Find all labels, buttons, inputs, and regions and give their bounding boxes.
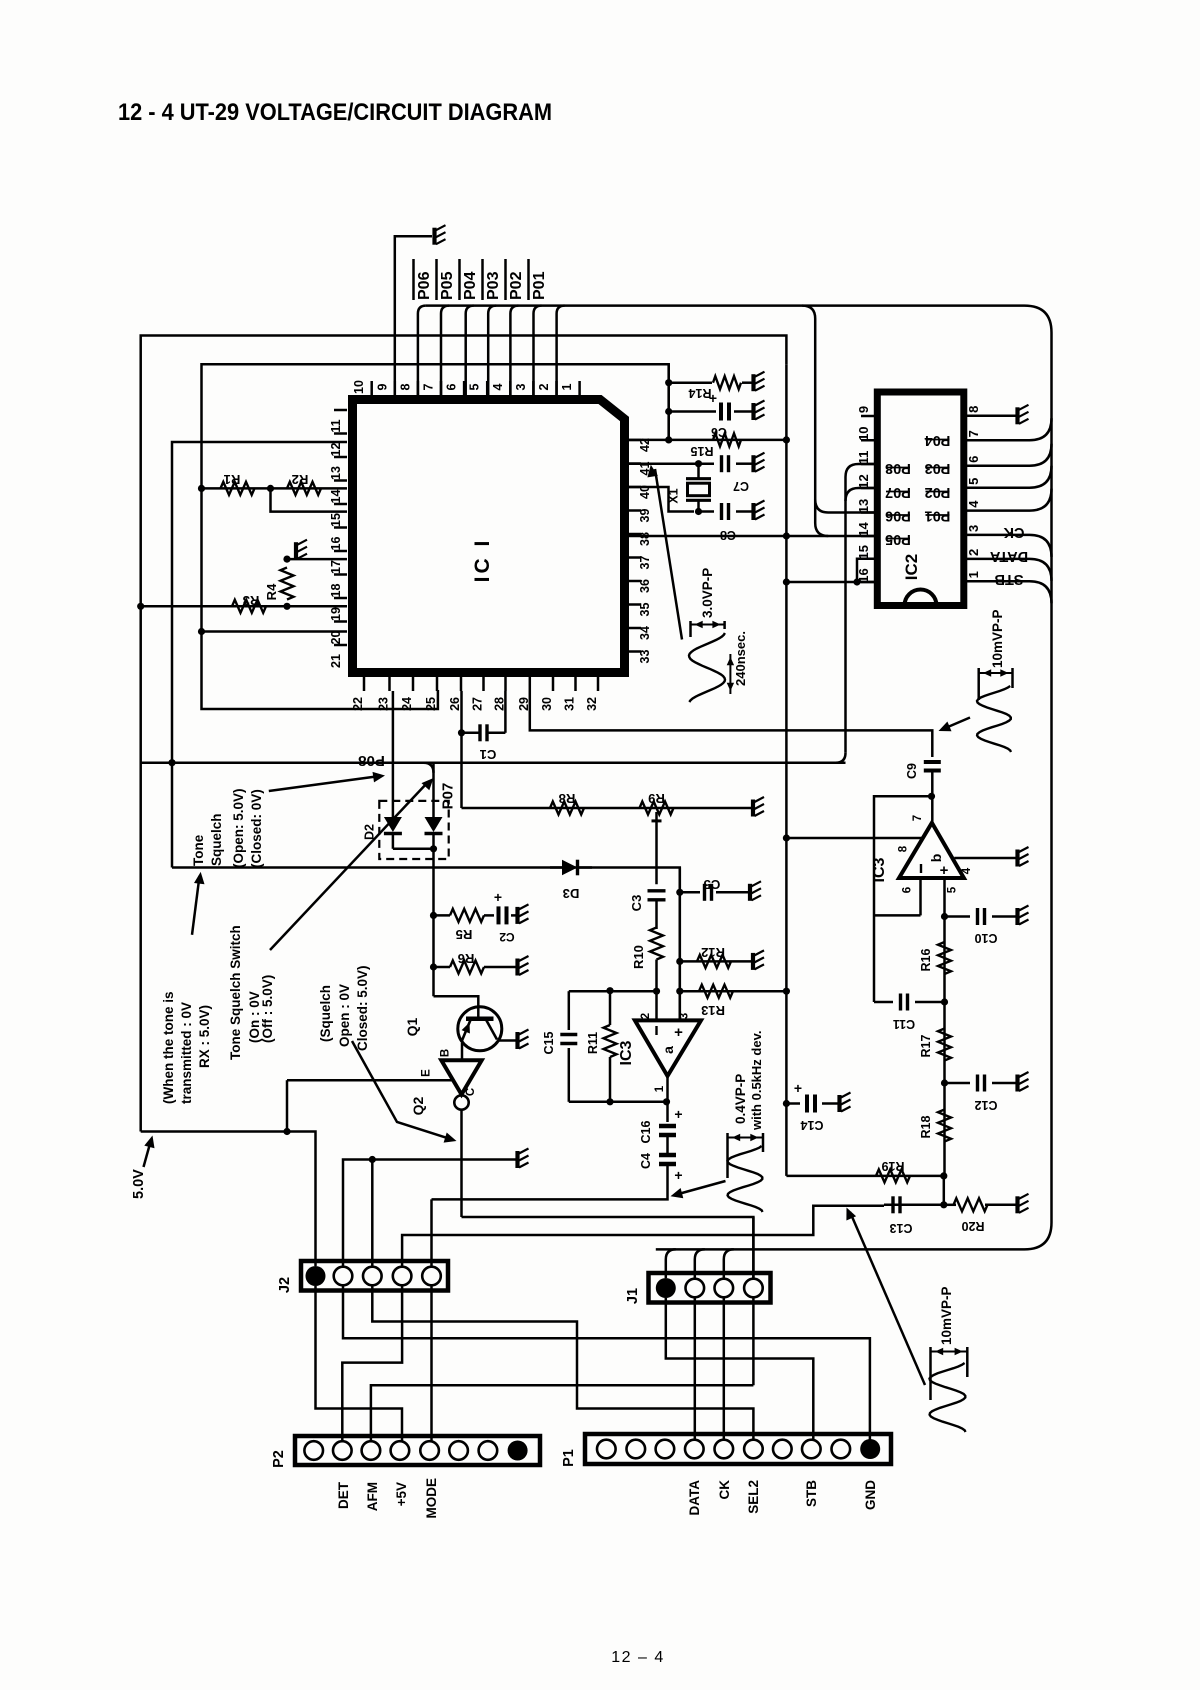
junction dot pin21 line on inner rect bbox=[198, 628, 205, 635]
svg-text:R15: R15 bbox=[690, 444, 713, 458]
wire C3 chain: tick bar and vertical bbox=[652, 819, 662, 822]
waveform 0.4VP-P bracket bbox=[726, 1133, 729, 1178]
wire bundle curve up to IC2 pin11 vertical bbox=[836, 753, 846, 763]
wire X1 bottom to C8 bbox=[699, 510, 715, 513]
svg-text:R12: R12 bbox=[701, 945, 725, 960]
wire feedback left branch with C15 bbox=[568, 991, 571, 1030]
svg-text:STB: STB bbox=[995, 571, 1024, 587]
svg-text:+: + bbox=[940, 862, 949, 879]
svg-text:+: + bbox=[494, 889, 502, 905]
waveform 0.4VP-P sine bbox=[728, 1146, 763, 1212]
ground above R4 bbox=[296, 540, 307, 560]
junction dot J2 pin3 on ground line bbox=[369, 1156, 376, 1163]
wire J2 pin1 to P2 pin4 jog bbox=[316, 1286, 403, 1441]
svg-text:R17: R17 bbox=[919, 1034, 933, 1057]
waveform 3.0VP-P bracket bbox=[689, 621, 692, 637]
svg-text:22: 22 bbox=[351, 697, 365, 711]
svg-text:(Closed: 0V): (Closed: 0V) bbox=[249, 789, 264, 868]
wire R6 line bbox=[434, 966, 451, 969]
capacitor C4 electrolytic bbox=[659, 1153, 676, 1158]
capacitor C10 bbox=[976, 908, 979, 925]
capacitor C1 bbox=[478, 724, 481, 741]
junction dot IC3a output/feedback bbox=[663, 1098, 670, 1105]
junction dot R1/R2 bbox=[267, 485, 274, 492]
svg-text:RX : 5.0V): RX : 5.0V) bbox=[197, 1005, 212, 1068]
svg-text:Q2: Q2 bbox=[410, 1096, 426, 1115]
wire IC1 pin21 line y=631.5 bbox=[202, 630, 348, 633]
waveform 10mVP-P sine (lower) bbox=[930, 1363, 966, 1432]
svg-text:23: 23 bbox=[377, 697, 391, 711]
junction dot pin38 line on V1 bbox=[783, 532, 790, 539]
svg-text:C15: C15 bbox=[542, 1031, 556, 1054]
wire R10 to pin2 junction bbox=[655, 960, 658, 1021]
wire Q2 E branch vertical bbox=[286, 1080, 289, 1131]
svg-text:C7: C7 bbox=[733, 479, 749, 493]
wire J1 pin2 to P1 pin4 (DATA) bbox=[694, 1298, 697, 1444]
wire Q2 collector down to J-area bbox=[460, 1110, 463, 1217]
svg-text:b: b bbox=[928, 854, 944, 863]
svg-text:5: 5 bbox=[947, 886, 959, 893]
wire Q1 collector to Q2 base bbox=[461, 1043, 464, 1060]
svg-text:R16: R16 bbox=[919, 948, 933, 971]
svg-text:R3: R3 bbox=[243, 593, 260, 608]
junction dot R14 line bbox=[665, 379, 672, 386]
svg-text:27: 27 bbox=[471, 697, 485, 711]
waveform 10mVP-P bracket (lower) bbox=[929, 1347, 932, 1400]
junction dot pin16 line on V1 bbox=[783, 578, 790, 585]
junction dot R11 bottom bbox=[606, 1098, 613, 1105]
svg-text:P05: P05 bbox=[439, 271, 456, 300]
wire ground line y=1159.5 over J2 bbox=[343, 1160, 516, 1267]
svg-text:6: 6 bbox=[902, 887, 914, 893]
wire pin5 chain down (R16,R17,R18) bbox=[943, 878, 946, 1176]
ground after R20 bbox=[1018, 1194, 1029, 1214]
arrow tone-squelch-switch to P07 bbox=[270, 782, 428, 950]
svg-text:C5: C5 bbox=[704, 877, 721, 892]
ground after C2 bbox=[518, 904, 529, 924]
svg-text:with 0.5kHz dev.: with 0.5kHz dev. bbox=[749, 1031, 764, 1131]
wire feedback top y=991 bbox=[569, 990, 657, 993]
resistor R15 bbox=[713, 433, 741, 446]
wire J1 pin4 entry bbox=[752, 1217, 755, 1278]
wire R11 stubs bbox=[609, 991, 612, 1025]
capacitor C9 bbox=[924, 760, 941, 764]
resistor R2 bbox=[287, 482, 321, 495]
svg-text:R19: R19 bbox=[881, 1159, 904, 1173]
svg-text:10: 10 bbox=[856, 426, 871, 440]
wire IC1 pin26 vertical down through C1 junction to R8 line corner bbox=[460, 691, 463, 808]
capacitor C3 bbox=[648, 889, 666, 892]
resistor R16 bbox=[938, 942, 951, 974]
svg-text:Closed: 5.0V): Closed: 5.0V) bbox=[355, 965, 370, 1051]
svg-text:11: 11 bbox=[329, 419, 343, 432]
svg-text:J1: J1 bbox=[625, 1288, 641, 1304]
junction dot R13 line bbox=[676, 988, 683, 995]
junction dot pin8 line on V1 bbox=[783, 834, 790, 841]
resistor R5 bbox=[450, 909, 484, 922]
svg-text:AFM: AFM bbox=[365, 1482, 380, 1511]
wire V1 right-centre vertical bus x=786 bbox=[785, 364, 788, 1176]
svg-text:14: 14 bbox=[329, 490, 343, 504]
wire IC2 pin15 jog bbox=[857, 559, 875, 582]
junction dot X1 top bbox=[695, 460, 702, 467]
wire J1 pin1 to P1 pin8 (STB) bbox=[666, 1298, 814, 1444]
IC2 left pins 9..16 bbox=[856, 406, 877, 583]
wire J1 pins1-3 cable entry curves bbox=[666, 1249, 734, 1278]
svg-text:GND: GND bbox=[863, 1480, 878, 1510]
svg-text:3.0VP-P: 3.0VP-P bbox=[700, 568, 715, 618]
junction dot R13 on V1 bbox=[783, 988, 790, 995]
svg-text:16: 16 bbox=[329, 537, 343, 551]
wire P08 vertical from IC1 pin23 to D2 left diode bbox=[392, 691, 395, 817]
capacitor C6 electrolytic bbox=[719, 403, 723, 421]
wire R1-R2 line y=488.4 bbox=[202, 487, 348, 490]
svg-text:(When the tone is: (When the tone is bbox=[161, 992, 176, 1105]
svg-text:P08: P08 bbox=[358, 752, 385, 769]
svg-text:+: + bbox=[709, 390, 717, 406]
svg-text:3: 3 bbox=[966, 525, 981, 532]
svg-text:CK: CK bbox=[717, 1480, 732, 1500]
wire R3 line y=606.3 bbox=[141, 605, 347, 608]
crystal X1 bbox=[697, 464, 700, 478]
svg-text:(Off : 5.0V): (Off : 5.0V) bbox=[260, 975, 275, 1043]
resistor R19 bbox=[876, 1169, 910, 1182]
ground at Q1 bbox=[518, 1030, 529, 1050]
svg-text:1: 1 bbox=[560, 383, 574, 390]
connector P1 box bbox=[585, 1434, 891, 1464]
IC1 bottom pins 22..32 ticks and numbers bbox=[351, 677, 599, 711]
junction dot R11 top bbox=[606, 987, 613, 994]
wire IC3b feedback loop bbox=[874, 796, 932, 1002]
svg-text:7: 7 bbox=[912, 815, 924, 821]
svg-text:SEL2: SEL2 bbox=[746, 1480, 761, 1514]
junction dot C5 line bbox=[676, 889, 683, 896]
net labels P06..P01 with overbars bbox=[414, 259, 549, 300]
svg-text:transmitted : 0V: transmitted : 0V bbox=[179, 1002, 194, 1104]
arrow tone-squelch to P08 bbox=[269, 776, 378, 791]
ground after C8 bbox=[754, 501, 765, 521]
wire R14/C6 vertical x=668.7 bbox=[667, 364, 670, 440]
svg-text:P1: P1 bbox=[561, 1449, 577, 1467]
svg-text:32: 32 bbox=[585, 697, 599, 711]
wire R5 line bbox=[434, 914, 451, 917]
wire IC2 pins 3..1 (CK DATA STB) curves into cable bbox=[980, 535, 1052, 603]
svg-text:R9: R9 bbox=[648, 791, 665, 806]
capacitor C8 bbox=[720, 503, 723, 520]
wire 5V rail corner to J2 pin1 bbox=[141, 1132, 316, 1267]
svg-text:9: 9 bbox=[375, 383, 389, 390]
resistor R10 bbox=[650, 928, 663, 960]
junction dot C12 line bbox=[941, 1079, 948, 1086]
svg-text:7: 7 bbox=[966, 430, 981, 437]
wire feedback bottom y=1101.8 bbox=[569, 1101, 667, 1104]
junction dot Q2-E branch bbox=[283, 1128, 290, 1135]
wire R14 line bbox=[669, 381, 712, 384]
svg-text:24: 24 bbox=[400, 697, 414, 711]
junction dot X1 bottom bbox=[695, 508, 702, 515]
svg-text:C3: C3 bbox=[629, 895, 644, 912]
svg-text:(Open: 5.0V): (Open: 5.0V) bbox=[231, 788, 246, 868]
capacitor C15 bbox=[560, 1033, 577, 1036]
svg-text:26: 26 bbox=[448, 697, 462, 711]
svg-text:P01: P01 bbox=[531, 271, 548, 300]
ground on J2 pin2/3 line bbox=[518, 1149, 529, 1169]
junction dot pin42/R15 vertical bbox=[665, 436, 672, 443]
wire IC1 pin9 to ground bbox=[395, 236, 432, 395]
wire IC2 pin16 line from V1 bbox=[786, 581, 875, 584]
svg-text:8: 8 bbox=[398, 383, 412, 390]
junction dot x=172 on bundle line bbox=[168, 759, 175, 766]
capacitor C12 bbox=[976, 1075, 979, 1092]
arrow squelch to Q2 collector bbox=[352, 1041, 453, 1140]
svg-text:33: 33 bbox=[638, 650, 652, 664]
resistor R8 bbox=[550, 802, 584, 815]
svg-text:2: 2 bbox=[537, 383, 551, 390]
wire IC1 pin41 line y=463.7 bbox=[629, 462, 714, 465]
ground after C5 bbox=[750, 881, 761, 901]
wire C10 line bbox=[945, 915, 971, 918]
svg-text:P06: P06 bbox=[416, 271, 433, 300]
wire IC1 pin28 vertical to C1 right bbox=[504, 691, 507, 733]
ground at IC3b pin4 bbox=[1018, 847, 1029, 867]
svg-text:14: 14 bbox=[856, 522, 871, 537]
junction dot R6 line bbox=[430, 963, 437, 970]
svg-text:15: 15 bbox=[856, 545, 871, 559]
wire J2 pin4 up to C13 node line bbox=[402, 1206, 884, 1266]
connector J1 box bbox=[649, 1273, 771, 1303]
op-amp IC3 b bbox=[899, 823, 964, 878]
wire C6 line bbox=[669, 410, 716, 413]
svg-text:+: + bbox=[674, 1167, 682, 1183]
svg-text:6: 6 bbox=[966, 456, 981, 463]
wire second top line x=201.5 corner east at y=364 (to R14 vertical corner) bbox=[202, 364, 669, 440]
svg-text:R2: R2 bbox=[292, 472, 309, 487]
wire D2/P07 vertical down through R5,R6 junctions to Q1 base bbox=[432, 763, 435, 817]
wire bus exit curves to IC2 pins 13/14 bbox=[802, 306, 828, 536]
diode D2 right (cathode-down) bbox=[425, 817, 443, 832]
svg-text:Q1: Q1 bbox=[404, 1017, 420, 1036]
IC2 right pins 8..1 bbox=[964, 406, 981, 582]
svg-text:4: 4 bbox=[966, 500, 981, 508]
wire C13/R20 line bbox=[884, 1204, 944, 1207]
capacitor C16 electrolytic bbox=[659, 1124, 676, 1129]
ground after C7 bbox=[754, 453, 765, 473]
svg-text:3: 3 bbox=[514, 383, 528, 390]
wire inner rect x=201.5: top line to IC1 pin13-area, down, bottom to pin25 bbox=[202, 364, 438, 709]
resistor R14 bbox=[713, 376, 741, 389]
resistor R18 bbox=[938, 1110, 951, 1142]
junction dot pin42 line on V1 bbox=[783, 436, 790, 443]
wire bundle curve down into D2 right diode bbox=[424, 763, 434, 773]
resistor R12 bbox=[697, 955, 731, 968]
wire IC1 pin38 line y=536 to IC2 pin14 bbox=[629, 535, 875, 538]
svg-text:R18: R18 bbox=[919, 1115, 933, 1138]
svg-text:10: 10 bbox=[352, 380, 366, 394]
junction dot D2 bottom bbox=[430, 845, 437, 852]
junction dot C10 line bbox=[941, 913, 948, 920]
junction dot on 5V rail (R3 line) bbox=[137, 603, 144, 610]
svg-text:IC3: IC3 bbox=[618, 1040, 635, 1065]
ground after R12 bbox=[753, 950, 764, 970]
svg-text:P02: P02 bbox=[508, 271, 525, 300]
junction dot R1 left on inner rect bbox=[198, 485, 205, 492]
svg-text:R1: R1 bbox=[224, 472, 241, 487]
svg-text:10mVP-P: 10mVP-P bbox=[939, 1286, 954, 1345]
wire IC1 pin29 line east then down to C9 bbox=[530, 691, 933, 757]
wire P08/P07 bundle horizontal y=762.5 bbox=[141, 761, 846, 764]
wire Q2 collector line y=1217 to J1 pin4 bbox=[462, 1217, 754, 1385]
svg-text:31: 31 bbox=[563, 697, 577, 711]
svg-text:B: B bbox=[440, 1049, 452, 1057]
wire J2 pin5 / P2 pin5 straight with C4 line bbox=[430, 1199, 433, 1441]
capacitor C14 electrolytic bbox=[805, 1095, 809, 1113]
op-amp IC3 a bbox=[635, 1020, 701, 1076]
svg-text:P04: P04 bbox=[462, 271, 479, 300]
svg-text:2: 2 bbox=[966, 549, 981, 556]
capacitor C7 bbox=[720, 455, 723, 472]
svg-text:4: 4 bbox=[961, 867, 973, 874]
svg-text:MODE: MODE bbox=[424, 1478, 439, 1519]
connector J1 pins 1-4 bbox=[656, 1278, 763, 1298]
svg-text:11: 11 bbox=[856, 451, 871, 465]
junction dot C14 on V1 bbox=[783, 1100, 790, 1107]
wire P0 bus curves from IC1 pins 8..2 bbox=[418, 306, 565, 395]
diode D2 left (cathode-down) bbox=[384, 817, 402, 832]
wire C14 line from V1 bbox=[786, 1102, 800, 1105]
svg-text:E: E bbox=[421, 1069, 433, 1077]
svg-text:C13: C13 bbox=[889, 1221, 912, 1235]
svg-text:P07: P07 bbox=[440, 783, 457, 810]
svg-text:R5: R5 bbox=[456, 927, 473, 942]
svg-text:12: 12 bbox=[329, 443, 343, 457]
wire Q1 emitter to ground bbox=[499, 1039, 517, 1042]
junction dot C11 line bbox=[941, 998, 948, 1005]
svg-text:D3: D3 bbox=[563, 886, 580, 901]
ground after R6 bbox=[518, 956, 529, 976]
wire IC2 pin8 to ground bbox=[980, 415, 1016, 418]
IC1 right pins 42..33 ticks and numbers bbox=[629, 438, 652, 663]
svg-text:C4: C4 bbox=[639, 1153, 653, 1169]
resistor R11 bbox=[604, 1025, 617, 1057]
resistor R1 bbox=[221, 482, 255, 495]
svg-text:C9: C9 bbox=[905, 763, 919, 779]
diode D3 bbox=[550, 866, 562, 869]
svg-text:30: 30 bbox=[540, 697, 554, 711]
wire 5.0V rail left vertical + top edge to V1 corner bbox=[141, 336, 787, 1132]
svg-text:STB: STB bbox=[804, 1480, 819, 1507]
transistor Q1 bbox=[458, 1007, 502, 1051]
svg-text:17: 17 bbox=[329, 560, 343, 574]
wire P0 bus top horizontal to top-right corner into cable vertical bbox=[426, 306, 1052, 1250]
diode pair D2 dashed box bbox=[379, 801, 448, 859]
connector J2 box bbox=[301, 1261, 448, 1291]
svg-text:C14: C14 bbox=[800, 1118, 823, 1132]
wire R13 line to V1 bbox=[680, 990, 787, 993]
op-amp IC1 main microcomputer box with chamfer and label bbox=[353, 400, 625, 673]
wire R4 top line to IC1 pin18 bbox=[287, 558, 347, 561]
wire IC1 pin42 line y=439.9 to V1 bbox=[629, 439, 787, 442]
svg-text:IC I: IC I bbox=[471, 538, 494, 583]
svg-text:1: 1 bbox=[966, 571, 981, 578]
svg-text:R10: R10 bbox=[631, 945, 646, 969]
svg-text:IC2: IC2 bbox=[902, 554, 921, 580]
svg-text:10mVP-P: 10mVP-P bbox=[990, 609, 1005, 668]
wire J2 pin2 down to P1 pin10 (GND) bbox=[343, 1286, 870, 1444]
ground after C14 bbox=[840, 1093, 851, 1113]
svg-text:6: 6 bbox=[445, 383, 459, 390]
svg-text:37: 37 bbox=[638, 556, 652, 570]
junction dot R5 line bbox=[430, 912, 437, 919]
svg-text:13: 13 bbox=[856, 499, 871, 513]
connector P1 pins 1-10 bbox=[597, 1439, 880, 1459]
svg-text:(Squelch: (Squelch bbox=[318, 985, 333, 1042]
svg-text:C12: C12 bbox=[974, 1098, 997, 1112]
wire IC1 pin40 jog to X1 bottom bbox=[629, 487, 694, 512]
resistor R3 bbox=[232, 600, 266, 613]
op-amp IC2 expander box with notch and label bbox=[877, 392, 964, 606]
connector P2 pins 1-8 bbox=[304, 1441, 527, 1461]
wire IC3b pin4 to ground bbox=[954, 857, 1016, 860]
arrow 10mVP-P to C13 line bbox=[850, 1212, 925, 1385]
connector P2 box bbox=[295, 1436, 540, 1465]
capacitor C11 bbox=[899, 994, 902, 1011]
svg-text:5.0V: 5.0V bbox=[131, 1169, 147, 1199]
junction dot pin15 jog bbox=[853, 578, 860, 585]
wire C12 line bbox=[945, 1082, 971, 1085]
svg-text:8: 8 bbox=[898, 845, 910, 852]
svg-text:C10: C10 bbox=[974, 931, 997, 945]
resistor R4 bbox=[281, 568, 294, 600]
svg-text:1: 1 bbox=[654, 1085, 666, 1092]
wire J2 pin3 down jog to P1 pin6 (SEL2) bbox=[372, 1286, 753, 1444]
svg-text:Squelch: Squelch bbox=[209, 813, 224, 866]
svg-text:19: 19 bbox=[329, 607, 343, 621]
wire P2 pin3 (AFM) east to J1 pin4 bbox=[371, 1385, 754, 1441]
arrow 10mVP-P to C9 corner bbox=[944, 718, 970, 729]
svg-text:C11: C11 bbox=[893, 1017, 915, 1031]
wire C4 down corner west to J2 pin5 line bbox=[432, 1164, 668, 1199]
svg-text:38: 38 bbox=[638, 532, 652, 546]
wire IC2 pin11 bundle vertical bbox=[846, 464, 876, 753]
resistor R17 bbox=[938, 1029, 951, 1061]
waveform 10mVP-P sine (upper) bbox=[977, 686, 1011, 752]
svg-text:36: 36 bbox=[638, 579, 652, 593]
svg-text:CK: CK bbox=[1003, 524, 1024, 540]
svg-text:P2: P2 bbox=[271, 1450, 287, 1468]
arrow 0.4VP-P to C4 corner bbox=[677, 1181, 726, 1195]
junction dot R4 top bbox=[283, 556, 290, 563]
connector J2 pins 1-5 bbox=[306, 1266, 441, 1286]
svg-text:5: 5 bbox=[966, 478, 981, 485]
junction dot IC3a pin2 node bbox=[653, 988, 660, 995]
svg-text:R4: R4 bbox=[264, 583, 279, 600]
resistor R9 bbox=[640, 802, 674, 815]
wire tone-squelch horizontal y=867.5 (D3 line) to pin3 chain corner bbox=[172, 868, 680, 1021]
resistor R20 bbox=[954, 1198, 988, 1211]
svg-text:+: + bbox=[674, 1024, 683, 1041]
svg-text:25: 25 bbox=[424, 697, 438, 711]
svg-text:+: + bbox=[674, 1106, 682, 1122]
svg-text:R13: R13 bbox=[701, 1003, 725, 1018]
wire jog R1R2 junction to IC1 pin15 bbox=[271, 488, 348, 511]
svg-text:0.4VP-P: 0.4VP-P bbox=[733, 1074, 748, 1124]
wire C3 to R10 bbox=[655, 900, 658, 929]
IC1 top pins 10..1 ticks and numbers bbox=[352, 380, 579, 395]
svg-text:9: 9 bbox=[856, 406, 871, 413]
svg-text:+5V: +5V bbox=[394, 1482, 409, 1506]
svg-text:12 - 4 UT-29 VOLTAGE/CIRCUIT: 12 - 4 UT-29 VOLTAGE/CIRCUIT DIAGRAM bbox=[118, 99, 552, 126]
svg-text:C2: C2 bbox=[499, 930, 515, 944]
